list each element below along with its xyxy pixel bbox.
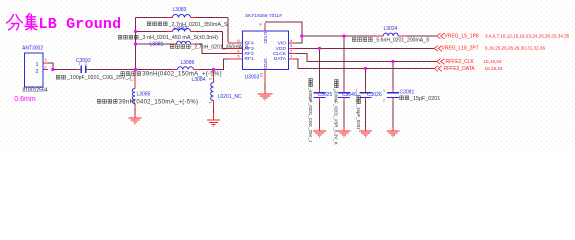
svg-text:1: 1 bbox=[130, 100, 134, 102]
pin DATA bbox=[289, 58, 296, 60]
node bus row2 bbox=[134, 30, 137, 33]
wire row4 ANT net to L3084 junction and RF1 riser bbox=[136, 59, 229, 70]
wire row2 L3082 to elbow bbox=[136, 32, 223, 49]
wire CLCK elbow down to CLK row bbox=[296, 54, 437, 62]
capacitor rotated value labels bbox=[308, 87, 361, 145]
svg-text:L3083: L3083 bbox=[173, 7, 187, 13]
wire bank left bus vertical bbox=[135, 18, 137, 70]
pin L3085 bottom wire bbox=[134, 104, 136, 118]
svg-text:L3024: L3024 bbox=[384, 26, 398, 32]
inductor L3082 coil bbox=[173, 29, 191, 32]
svg-text:2: 2 bbox=[85, 61, 87, 66]
svg-text:C3091: C3091 bbox=[400, 90, 415, 96]
pin L3086 stubs bbox=[172, 69, 200, 71]
wire C3092 to bank bus bbox=[90, 69, 136, 71]
svg-text:L3085: L3085 bbox=[137, 91, 151, 97]
pin L3084 bottom wire bbox=[213, 101, 215, 121]
svg-text:CLCK: CLCK bbox=[273, 51, 287, 57]
wire VDD / VREG_L18 row bbox=[296, 47, 435, 49]
svg-text:VIO: VIO bbox=[278, 41, 287, 47]
svg-text:_2.7nH_0201_350mA_S: _2.7nH_0201_350mA_S bbox=[191, 45, 249, 51]
svg-text:1: 1 bbox=[45, 57, 47, 62]
node C3049 tap bbox=[342, 34, 345, 37]
inductor L3085 coil (vertical) bbox=[132, 89, 135, 104]
capacitor C3025 rotated CJK bbox=[309, 79, 312, 83]
svg-text:DATA: DATA bbox=[274, 56, 287, 62]
inductor L3086 coil bbox=[178, 67, 194, 70]
svg-text:RF1: RF1 bbox=[245, 56, 255, 62]
svg-text:RF3: RF3 bbox=[245, 46, 255, 52]
node RFFE2_CLK arrow bbox=[437, 59, 445, 65]
wire VREG_L5 row to L3024 and arrow bbox=[302, 35, 437, 37]
inductor L3024 coil bbox=[383, 33, 398, 36]
ground IC GND pin bbox=[258, 89, 273, 100]
wire ANT junction to C3092 bbox=[53, 69, 77, 71]
svg-text:_100nF_0201_X5R_6.3V_K: _100nF_0201_X5R_6.3V_K bbox=[334, 88, 339, 145]
pin L3082 stubs bbox=[167, 31, 197, 33]
svg-text:VDD: VDD bbox=[276, 46, 287, 52]
node VREG_L5_1P8 arrow bbox=[437, 33, 445, 39]
svg-text:2: 2 bbox=[36, 69, 39, 75]
svg-text:0.6mm: 0.6mm bbox=[14, 96, 36, 103]
pin ANT pin1 stub bbox=[43, 62, 48, 64]
capacitor C3026 rotated CJK bbox=[357, 96, 360, 100]
ground C3026 bbox=[359, 128, 372, 138]
svg-text:2: 2 bbox=[383, 98, 385, 102]
wire RF3 short bbox=[223, 47, 229, 49]
wire ANT elbow pin1 to pin2 junction bbox=[48, 63, 53, 69]
ground L3084 bbox=[207, 117, 220, 127]
wire L3084 mid bbox=[213, 107, 215, 114]
svg-text:10,19,34: 10,19,34 bbox=[485, 66, 503, 71]
svg-text:USID: USID bbox=[262, 32, 268, 44]
svg-text:L3086: L3086 bbox=[181, 60, 195, 66]
node C3091 tap bbox=[391, 60, 394, 63]
svg-text:L3081: L3081 bbox=[150, 42, 164, 48]
ground C3049 bbox=[338, 128, 351, 138]
wire row1 L3083 to elbow bbox=[136, 18, 229, 43]
svg-text:LB Ground: LB Ground bbox=[39, 16, 122, 33]
pin L3024 stubs bbox=[376, 35, 406, 37]
svg-text:RFFE2_CLK: RFFE2_CLK bbox=[446, 59, 475, 65]
svg-text:_100pF_0201_C0G_25V_J: _100pF_0201_C0G_25V_J bbox=[308, 87, 313, 143]
pin GND vertical bbox=[264, 70, 266, 84]
pin stubs C3049 bbox=[343, 89, 345, 101]
pin C3092 stubs bbox=[77, 69, 90, 71]
svg-text:2: 2 bbox=[130, 79, 134, 81]
svg-text:C3026: C3026 bbox=[367, 92, 382, 98]
pin USD vertical bbox=[264, 23, 266, 31]
pin RF2 bbox=[228, 53, 243, 55]
svg-text:U3003: U3003 bbox=[245, 74, 260, 80]
svg-text:SKY19256-701LF: SKY19256-701LF bbox=[245, 13, 282, 18]
svg-text:_15pF_0201: _15pF_0201 bbox=[356, 104, 361, 131]
svg-text:_100pF_0201_C0G_25V_J: _100pF_0201_C0G_25V_J bbox=[66, 75, 131, 81]
pin L3085 top wire bbox=[134, 70, 136, 89]
svg-text:1: 1 bbox=[383, 88, 385, 92]
svg-text:ANT3002: ANT3002 bbox=[22, 45, 43, 51]
svg-text:L3082: L3082 bbox=[174, 26, 188, 32]
pin stubs C3026 bbox=[365, 89, 367, 101]
svg-text:1: 1 bbox=[78, 61, 80, 66]
svg-text:818012564: 818012564 bbox=[23, 87, 48, 93]
pin RF4 bbox=[228, 42, 243, 44]
pin L3083 stubs bbox=[167, 17, 197, 19]
svg-text:10,19,34: 10,19,34 bbox=[484, 59, 502, 64]
inductor L3081 coil bbox=[177, 41, 191, 44]
ground C3091 bbox=[387, 128, 400, 138]
svg-text:GND: GND bbox=[262, 58, 268, 69]
svg-text:_5.6nH_0201_200mA_S: _5.6nH_0201_200mA_S bbox=[373, 38, 430, 44]
node bus row4 bbox=[134, 68, 137, 71]
wire C3026 branch vertical bbox=[365, 69, 367, 128]
svg-text:39nH(0402_150mA_+(-5%): 39nH(0402_150mA_+(-5%) bbox=[142, 72, 222, 78]
pin VIO bbox=[289, 42, 296, 44]
pin RF3 bbox=[228, 47, 243, 49]
node bus row3 bbox=[134, 42, 137, 45]
pin L3081 stubs bbox=[171, 43, 197, 45]
node C3026 tap bbox=[364, 67, 367, 70]
pin VDD bbox=[289, 47, 296, 49]
svg-text:5: 5 bbox=[237, 54, 239, 59]
capacitor C3092 plates bbox=[81, 66, 85, 73]
svg-text:RF2: RF2 bbox=[245, 51, 255, 57]
svg-text:2: 2 bbox=[44, 65, 46, 70]
pin L3084 top wire bbox=[213, 70, 215, 83]
antenna ANT3002 body bbox=[25, 53, 43, 87]
svg-text:6,19,25,26,28,29,30,31,32,36: 6,19,25,26,28,29,30,31,32,36 bbox=[485, 46, 545, 51]
capacitor C3049 rotated CJK bbox=[335, 80, 338, 84]
svg-text:3,4,6,7,10,12,15,19,23,24,26,3: 3,4,6,7,10,12,15,19,23,24,26,30,33,34,35 bbox=[485, 33, 570, 38]
svg-text:C3049: C3049 bbox=[342, 92, 357, 98]
inductor L3084 coil (vertical) bbox=[211, 83, 214, 101]
inductor L3083 coil bbox=[173, 15, 191, 18]
capacitor C3026 plates bbox=[360, 93, 372, 98]
pin stubs caps vertical C3025 bbox=[319, 89, 321, 101]
svg-text:L0201_NC: L0201_NC bbox=[218, 94, 242, 100]
svg-text:1: 1 bbox=[290, 54, 292, 59]
svg-text:9: 9 bbox=[258, 23, 263, 25]
wire DATA elbow down to DATA row bbox=[296, 59, 435, 69]
node RFFE2_DATA arrow bbox=[434, 66, 442, 72]
node L3084 tap bbox=[212, 68, 215, 71]
wire C3091 branch vertical bbox=[392, 62, 394, 128]
wire C3049 branch vertical bbox=[343, 36, 345, 128]
svg-text:1: 1 bbox=[36, 62, 39, 68]
svg-text:VREG_L5_1P8: VREG_L5_1P8 bbox=[445, 33, 479, 39]
ground L3085 bbox=[129, 114, 142, 124]
node VREG_L18_2P7 arrow bbox=[434, 46, 442, 52]
svg-text:_3 nH_0201_450 mA_S(±0.3nH): _3 nH_0201_450 mA_S(±0.3nH) bbox=[139, 35, 219, 41]
pin RF1 bbox=[228, 58, 243, 60]
wire C3025 branch vertical bbox=[319, 48, 321, 127]
svg-text:L3084: L3084 bbox=[192, 77, 206, 83]
svg-text:C3025: C3025 bbox=[318, 92, 333, 98]
op-amp U3003 body (RF switch IC) bbox=[243, 31, 289, 69]
capacitor C3025 plates bbox=[314, 93, 326, 98]
title 分集 (hand-drawn strokes) bbox=[7, 14, 38, 30]
svg-text:2: 2 bbox=[208, 78, 213, 80]
svg-text:VREG_L18_2P7: VREG_L18_2P7 bbox=[442, 46, 479, 52]
svg-text:RF4: RF4 bbox=[245, 41, 255, 47]
node C3025 tap bbox=[318, 47, 321, 50]
pin CLCK bbox=[289, 53, 296, 55]
ground C3025 bbox=[313, 128, 326, 138]
wire L3085 mid bbox=[134, 109, 136, 114]
wire row3 L3081 elbow to RF2 bbox=[136, 44, 228, 54]
svg-text:_15pF_0201: _15pF_0201 bbox=[409, 96, 440, 102]
svg-text:1: 1 bbox=[208, 102, 213, 104]
capacitor C3049 plates bbox=[338, 93, 350, 98]
capacitor C3091 plates bbox=[387, 93, 399, 98]
pin ANT pin2 stub bbox=[43, 69, 48, 71]
svg-text:RFFE2_DATA: RFFE2_DATA bbox=[444, 66, 476, 72]
wire USD pin loop to VREG_L5 node bbox=[265, 22, 302, 43]
pin stubs C3091 bbox=[392, 89, 394, 101]
node ANT pins junction bbox=[51, 68, 54, 71]
wire GND pin to ground bbox=[264, 84, 266, 90]
node VIO/USD/VREG_L5 bbox=[300, 34, 303, 37]
